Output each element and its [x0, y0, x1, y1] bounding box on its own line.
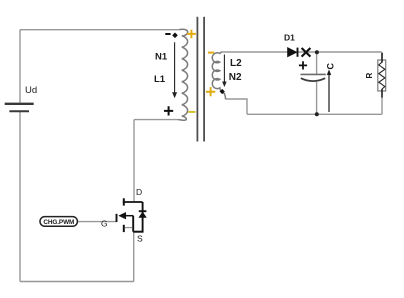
junction node top: [315, 50, 319, 54]
wire right vertical to resistor: [381, 52, 383, 61]
plus sign orange secondary bottom: [206, 87, 215, 96]
wire secondary bottom step: [226, 99, 248, 114]
wire gate from pill: [77, 221, 116, 223]
primary winding L1: [179, 29, 188, 120]
body vertical: [132, 216, 134, 232]
svg-text:D: D: [136, 187, 142, 197]
MOSFET Q1: [117, 198, 147, 232]
arrow secondary current: [222, 55, 227, 88]
wire bottom right horizontal: [247, 113, 382, 115]
svg-text:CHG.PWM: CHG.PWM: [43, 219, 74, 226]
battery Ud bottom plate: [9, 110, 29, 112]
wire left vertical battery to bottom: [19, 112, 21, 282]
junction node bottom: [315, 112, 319, 116]
arrow primary current: [172, 42, 177, 98]
body diode branch: [142, 202, 144, 232]
battery Ud top plate: [5, 103, 34, 105]
wire drain vertical: [133, 120, 135, 202]
plus sign orange primary top: [187, 30, 196, 39]
wire resistor bottom vertical: [381, 97, 383, 115]
wire top horizontal from source to transformer: [20, 29, 179, 31]
gate bar: [116, 214, 118, 222]
wire bottom horizontal: [20, 281, 134, 283]
minus sign orange primary bottom: [188, 111, 195, 113]
transformer core bar left: [196, 17, 198, 142]
wire capacitor bottom lead: [316, 82, 318, 115]
minus sign orange secondary top: [208, 52, 214, 54]
svg-text:N2: N2: [229, 72, 242, 83]
CHG.PWM pill: [40, 217, 77, 227]
svg-text:L2: L2: [230, 58, 242, 69]
wire capacitor top lead: [316, 52, 318, 74]
svg-text:C: C: [325, 62, 335, 69]
X mark after diode: [302, 48, 311, 57]
source link thin: [125, 227, 133, 229]
minus sign black primary top: [165, 33, 170, 35]
svg-text:Ud: Ud: [25, 85, 37, 96]
plus sign black primary bottom: [164, 106, 173, 115]
capacitor C bottom plate: [301, 78, 325, 81]
wire secondary top to diode: [222, 51, 288, 53]
svg-text:R: R: [365, 72, 374, 78]
wire primary bottom horizontal: [134, 119, 179, 121]
resistor R zigzag: [379, 62, 385, 89]
polarity dot primary top: [172, 33, 178, 39]
resistor R box: [378, 60, 386, 91]
diode D1: [288, 48, 298, 57]
resistor R leads: [381, 53, 383, 98]
capacitor C plus sign: [299, 61, 307, 69]
capacitor C top plate: [301, 73, 326, 75]
svg-text:N1: N1: [155, 52, 168, 63]
body diode triangle: [139, 212, 147, 218]
body arrow: [125, 215, 133, 217]
body diode cathode bar: [139, 210, 147, 212]
wire source vertical up to MOSFET: [133, 232, 135, 282]
wire diode to right corner: [298, 51, 382, 53]
channel bar drain: [123, 198, 125, 205]
svg-text:G: G: [101, 219, 108, 229]
transformer core bar right: [203, 17, 205, 142]
arrow capacitor voltage: [327, 69, 331, 112]
svg-text:D1: D1: [284, 33, 295, 43]
svg-text:L1: L1: [154, 74, 166, 85]
wire left vertical from top to battery: [19, 30, 21, 103]
channel bar source: [123, 225, 125, 232]
svg-text:S: S: [137, 233, 143, 243]
polarity dot secondary bottom: [220, 89, 225, 94]
secondary winding L2: [212, 52, 225, 99]
source connect: [133, 231, 143, 233]
drain connect: [123, 201, 143, 203]
